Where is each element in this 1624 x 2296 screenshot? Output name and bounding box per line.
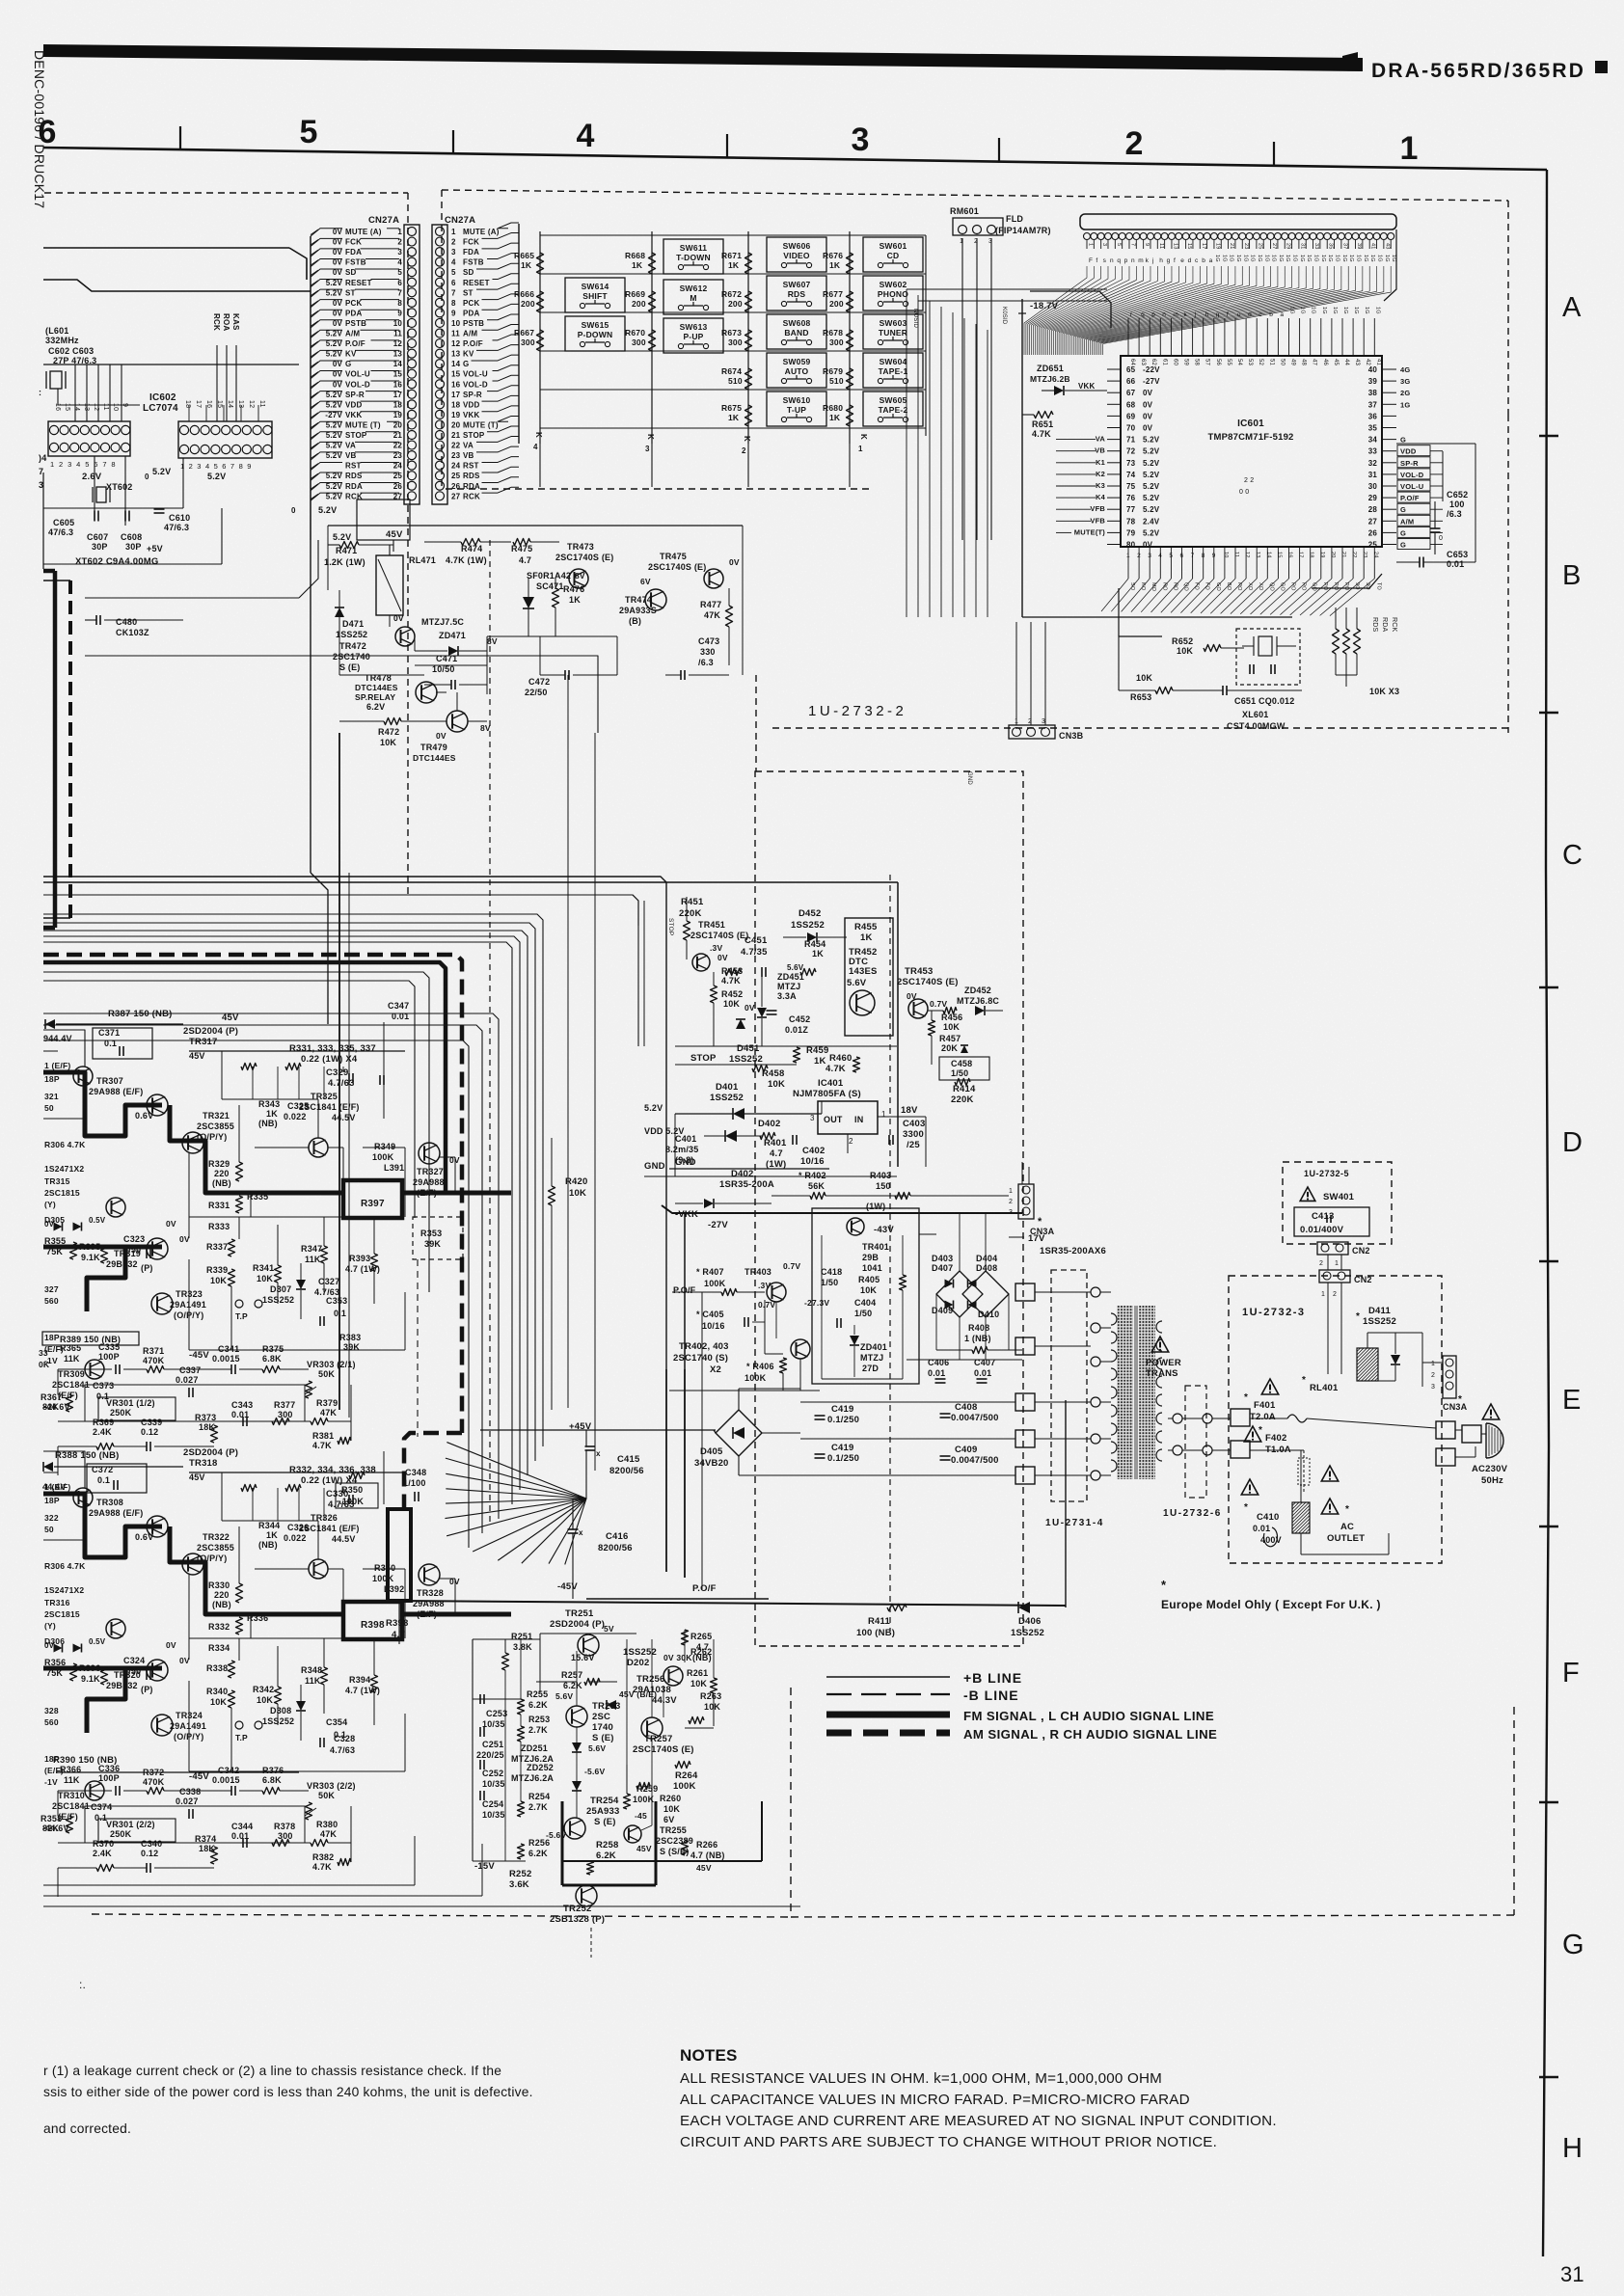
connector CN2 lower [1319,1270,1350,1283]
switch SW059 [767,353,826,388]
transistor TR323 [151,1293,173,1314]
D406 diode [1018,1602,1030,1613]
transistor TR479 [447,711,468,732]
pads to fuse [1231,1409,1250,1426]
feedback wires [58,1790,112,1792]
right border line [1543,170,1549,2256]
FLD fan wires [1024,266,1087,355]
thick box R397 [343,1180,402,1218]
switch SW611 [663,239,723,274]
switch SW603 [863,314,923,349]
transistor TR327 [419,1143,440,1164]
dashed box 1U-2732-3 [1229,1276,1442,1563]
FM signal thick line [43,962,446,1191]
switch SW604 [863,353,923,388]
transformer core stippled [1117,1306,1133,1479]
thick trace TR319 branch [43,1668,125,1733]
diode bridge D405 [716,1410,762,1456]
DIP connector 2 [178,421,272,458]
fuse symbols [1287,1415,1307,1422]
relay cluster wires [327,545,329,590]
switch SW607 [767,276,826,311]
R411 resistor [887,1605,907,1611]
transistor TR307 [73,1067,93,1086]
AC230V plug [1462,1425,1481,1443]
crystal XT symbol [50,371,62,389]
transformer wires left [1035,1291,1091,1293]
connector CN3A left [1018,1184,1034,1219]
TR25x cluster wires extra [504,1670,506,1861]
ruler ticks [179,126,181,149]
transistor TR325 [309,1138,328,1157]
CN27A right bus [518,224,520,444]
wires from tuner box right [85,597,299,599]
switch SW613 [663,318,723,353]
transistor TR318 [147,1516,168,1537]
wires right of IC601 [1396,443,1475,445]
relay cluster frame wires [328,525,743,527]
IC601 body [1121,356,1382,547]
IC601 routing left [1021,299,1023,617]
crystal XL601 dashed box [1236,629,1300,685]
transistor TR324 [151,1715,173,1736]
legend +B LINE [826,1676,950,1678]
legend AM signal [826,1730,950,1737]
thick audio trace main [43,1072,162,1136]
channel wires thin [189,1050,405,1052]
resistors 10K X3 [1333,629,1340,654]
AM signal thick dashed line [43,955,462,1433]
switch SW601 [863,237,923,272]
schematic bottom dashed border [92,1914,791,1917]
primary side circles [1173,1414,1182,1423]
R455 TR452 box [845,918,893,1036]
connector CN3A right [1443,1356,1456,1398]
switch SW610 [767,392,826,426]
star node fan [447,1499,586,1536]
transformer coil arcs [1111,1313,1117,1325]
FM tuner box thick edge [53,571,58,928]
-45V bus to R411 [397,1601,1066,1606]
R353 dashed box [413,1217,463,1259]
T.P points [235,1721,243,1729]
caps bottom ic602 [94,511,95,522]
bridge wires [919,1233,936,1235]
fuse F402 [1244,1426,1260,1442]
pad connectors left column [1015,1283,1035,1301]
switch matrix wires [539,231,541,444]
switch SW608 [767,314,826,349]
FLD display connector bar [1080,214,1396,230]
transistor TR319 [147,1238,168,1259]
regulator bottom wires [674,1114,676,1176]
wires below IC601 to crystal [1022,616,1292,618]
thick box R398 [343,1602,402,1639]
right border ticks [1539,435,1558,437]
IC601 bottom diagonal fan [1101,579,1128,611]
switch SW615 [565,316,625,351]
dashed box left CN27 area [44,192,408,194]
page top black bar [43,44,1363,71]
connector CN3B [1009,725,1055,739]
thick audio trace main [43,1494,162,1557]
AC outlet wires [1250,1418,1287,1419]
wire horizontal y257 [43,247,289,249]
transistor TR320 [147,1660,168,1681]
lower bottom wires [43,1884,415,1886]
T.P points [235,1300,243,1308]
fuse F401 [1261,1379,1278,1394]
DIP2 wire stubs [188,405,190,421]
TR401 block [812,1208,919,1384]
TR25x cluster wires [472,1639,474,1861]
POWER TRANS label [1151,1337,1168,1352]
transistor TR315 circle [106,1198,125,1217]
switch SW605 [863,392,923,426]
regulator top long line [43,881,898,883]
IC601 bottom pins [1127,547,1129,579]
vertical dashed line mid [489,540,491,1524]
regulator outline [633,895,638,926]
switch SW614 [565,278,625,312]
transistor TR328 [419,1564,440,1585]
thick trace TR319 branch [43,1247,125,1311]
star area wires [585,1430,587,1446]
dashed box 1U-2732-2 [442,190,1508,201]
transistor TR317 [147,1094,168,1116]
legend -B LINE [826,1693,950,1695]
wire top bus ic602 [43,364,299,365]
dashed box regulator 1U section [755,771,1023,1646]
dashed vertical below R353 [417,1259,419,1437]
transistor TR308 [73,1488,93,1507]
bus bundle horizontal wires with corners [43,877,666,1572]
long vertical wires middle [567,675,569,1408]
C458 cap [939,1057,989,1080]
big outline around IC601 block [1030,291,1111,328]
switch SW602 [863,276,923,311]
CN27A bus down bend [310,540,311,873]
CN27A left bus line [310,236,311,540]
transistor TR316 circle [106,1619,125,1638]
transformer secondary circles [1091,1287,1100,1297]
relay RL471 [376,555,403,615]
XT602 crystal symbol [96,487,106,502]
feedback wires [58,1368,112,1370]
switch SW606 [767,237,826,272]
channel wires thin [189,1472,405,1473]
transistor TR326 [309,1559,328,1579]
dashed box 1U-2732-5 SW401 [1283,1162,1392,1244]
transistor TR321 [182,1132,203,1153]
transistor TR403 [767,1283,786,1302]
connector CN2 upper [1317,1242,1348,1255]
power wires horizontals [800,1401,1015,1403]
FLD pin numbers [1086,240,1088,249]
top ruler line [43,148,1547,170]
wires matrix to ic601 zone [906,289,907,617]
wires bottom ic602 [43,507,183,509]
dashed box 1U-2731-4 [1051,1270,1087,1501]
switch SW612 [663,280,723,314]
dashed box 1U-2732-6 [1185,1386,1206,1498]
transistor TR402 [791,1339,810,1359]
C410 cap [1241,1479,1258,1495]
transistor TR322 [182,1553,203,1575]
DIP connector 1 [48,421,130,456]
TR252 transistor [576,1885,597,1906]
wire bus fld to matrix [907,288,1107,290]
legend FM signal [826,1712,950,1718]
AC OUTLET [1321,1466,1338,1481]
